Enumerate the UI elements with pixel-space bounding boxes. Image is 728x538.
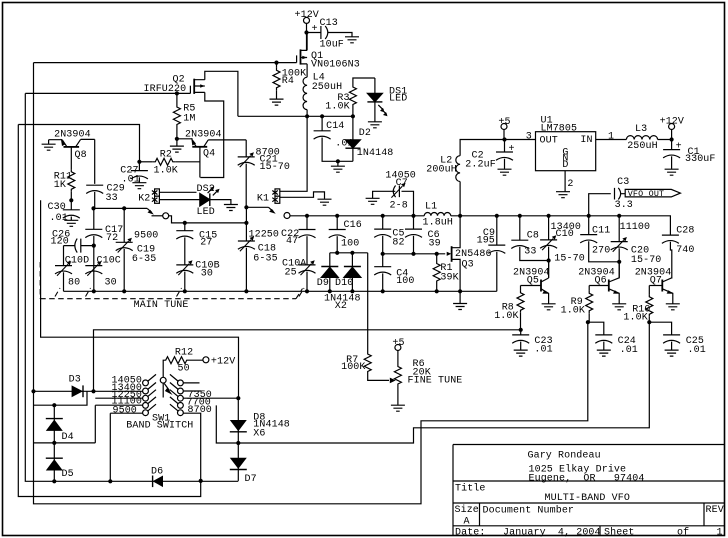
labels R11 1K: [54, 171, 72, 191]
connector VFO OUT: [625, 189, 680, 197]
svg-text:C7: C7: [396, 178, 408, 189]
ground DS2: [224, 205, 238, 211]
svg-text:D7: D7: [245, 474, 257, 485]
labels C16 100: [341, 220, 362, 249]
svg-text:11100: 11100: [620, 222, 651, 233]
led DS1: [367, 78, 387, 122]
labels L1 1.8uH: [423, 201, 454, 228]
terminal +12V top: [304, 17, 310, 23]
diode D4: [46, 419, 63, 431]
svg-text:1K: 1K: [54, 180, 66, 191]
labels band rows left: [112, 375, 143, 416]
wire C17 to rail: [93, 246, 95, 292]
wire: right row2 stub: [183, 390, 201, 392]
svg-text:LED: LED: [197, 207, 215, 218]
switch K2 socket: [163, 213, 169, 219]
diode D2: [345, 116, 360, 161]
switch K2 plug arrow: [147, 208, 154, 214]
svg-text:30: 30: [105, 278, 117, 289]
resistor R11: [68, 169, 75, 192]
labels 2N3904 Q6: [578, 268, 615, 287]
junction R5 top: [175, 91, 179, 95]
led DS2: [200, 187, 231, 207]
svg-text:K2: K2: [138, 194, 150, 205]
svg-text:R2: R2: [160, 149, 172, 160]
svg-text:1.0K: 1.0K: [623, 313, 647, 324]
labels C27 .01: [120, 165, 140, 185]
junction 8700 row / D7 row: [199, 479, 203, 483]
wire: 12250 row: [95, 397, 142, 399]
svg-text:1.0K: 1.0K: [494, 311, 518, 322]
capacitor C16: [336, 216, 338, 230]
title block text: date row: [455, 527, 723, 538]
labels 2N3904 Q5: [513, 268, 550, 287]
capacitor C14: [321, 116, 323, 131]
svg-text:LED: LED: [389, 93, 407, 104]
svg-text:C28: C28: [676, 226, 694, 237]
label MAIN TUNE: [132, 300, 192, 311]
svg-text:D5: D5: [62, 469, 74, 480]
junction C1: [670, 137, 674, 141]
svg-text:2.2uF: 2.2uF: [465, 160, 496, 171]
svg-text:740: 740: [676, 245, 694, 256]
svg-text:2N3904: 2N3904: [54, 129, 91, 140]
JFET gate wire: [382, 253, 446, 255]
transistor Q4 2N3904: [177, 138, 246, 178]
labels C17 72: [105, 225, 123, 244]
svg-text:C30: C30: [48, 202, 66, 213]
title block text: size/doc: [455, 504, 724, 528]
svg-text:3.3: 3.3: [615, 200, 633, 211]
svg-text:.01: .01: [50, 213, 68, 224]
main tank rail low: [64, 290, 497, 292]
resistor R10: [648, 286, 650, 295]
labels C11 270: [592, 226, 610, 257]
svg-text:C10: C10: [556, 229, 574, 240]
ground Q5: [542, 304, 556, 310]
labels L4 250uH: [312, 73, 343, 93]
svg-text:D2: D2: [359, 128, 371, 139]
svg-text:100: 100: [341, 238, 359, 249]
ground C30: [64, 220, 78, 226]
capacitor C27: [138, 162, 140, 171]
svg-text:1: 1: [717, 528, 723, 538]
svg-text:VFO OUT: VFO OUT: [628, 189, 665, 199]
junction D4 top: [52, 403, 56, 407]
labels DS1 LED: [389, 87, 407, 105]
svg-text:+12V: +12V: [295, 10, 319, 21]
ground DS1: [368, 122, 382, 128]
svg-text:+: +: [676, 142, 682, 153]
svg-text:Size: Size: [455, 504, 479, 516]
title block box: [453, 445, 725, 536]
svg-text:Gary Rondeau: Gary Rondeau: [528, 450, 601, 462]
capacitor C28: [662, 235, 679, 243]
labels C14 .01: [326, 121, 354, 150]
terminal +12V at R12: [203, 357, 209, 363]
svg-text:+: +: [312, 24, 318, 35]
junction R2/C27: [137, 160, 141, 164]
junction 9500 row at D6 row: [108, 479, 112, 483]
ground Q4 emitter node: [176, 139, 178, 146]
wire: R10 feedback line to D8 row: [216, 322, 649, 443]
jumper K1: [272, 116, 324, 203]
capacitor C30: [70, 200, 72, 210]
svg-text:Date:: Date:: [455, 528, 486, 538]
diode D5: [46, 458, 63, 470]
svg-text:L1: L1: [425, 201, 437, 212]
svg-text:250uH: 250uH: [312, 82, 343, 93]
junction rail dots left: [92, 289, 249, 293]
resistor R3: [352, 107, 354, 116]
transistor Q6 2N3904: [589, 262, 619, 304]
capacitor C4: [382, 254, 384, 267]
labels 2N5486 Q3: [455, 249, 492, 270]
capacitor C10C variable: [85, 266, 102, 274]
labels C8 33: [524, 231, 539, 258]
svg-text:D9: D9: [317, 278, 329, 289]
svg-text:270: 270: [592, 246, 610, 257]
inductor L3: [626, 136, 671, 140]
diode D8: [230, 420, 247, 432]
mosfet Q2 IRFU220: [190, 79, 204, 94]
svg-text:12250: 12250: [249, 230, 280, 241]
resistor R12: [163, 357, 203, 378]
capacitor C19 variable: [123, 208, 125, 242]
capacitor C10D variable: [63, 246, 65, 266]
wire socket left stub: [152, 215, 163, 217]
svg-text:Q5: Q5: [527, 275, 539, 286]
svg-text:X6: X6: [253, 429, 265, 440]
labels R6 20K FINE TUNE: [408, 359, 463, 387]
inductor L1: [424, 212, 450, 215]
svg-text:6-35: 6-35: [253, 254, 277, 265]
junction C2 tap: [502, 137, 506, 141]
labels 14050 C7 2-8: [385, 171, 416, 212]
jumper K2: [152, 189, 200, 203]
svg-text:MULTI-BAND VFO: MULTI-BAND VFO: [545, 493, 630, 504]
switch wiper to rail: [246, 206, 268, 208]
capacitor C24: [588, 322, 604, 335]
svg-text:2: 2: [567, 179, 573, 190]
svg-text:OUT: OUT: [540, 136, 558, 147]
svg-text:2-8: 2-8: [390, 200, 408, 211]
svg-text:3: 3: [526, 131, 532, 142]
svg-text:D: D: [562, 160, 568, 171]
ground R4: [270, 99, 284, 105]
wire: bus B vertical to D5 row: [25, 93, 238, 481]
svg-text:250uH: 250uH: [627, 141, 658, 152]
svg-text:FINE TUNE: FINE TUNE: [408, 376, 463, 387]
terminal +12V right: [669, 124, 675, 130]
svg-text:REV: REV: [706, 505, 724, 516]
junction R10/C25: [647, 320, 651, 324]
labels R1 39K: [440, 263, 458, 283]
junction R11/C30: [69, 198, 73, 202]
labels 11100 C20 15-70: [620, 222, 662, 266]
junction Q3 source rail: [458, 289, 462, 293]
junction D10 rail: [350, 289, 354, 293]
svg-text:9500: 9500: [134, 231, 158, 242]
svg-text:1M: 1M: [183, 114, 195, 125]
labels C25 .01: [686, 336, 706, 356]
labels L3 250uH: [627, 124, 658, 152]
junction C11/C20: [617, 260, 621, 264]
wire +12V down: [306, 23, 308, 50]
wiper arrow R6: [390, 378, 396, 384]
resistor R2: [139, 161, 152, 163]
resistor R8: [520, 286, 522, 291]
capacitor C3 coupling: [589, 188, 626, 216]
svg-text:C13: C13: [320, 18, 338, 29]
labels R7 100K: [341, 355, 365, 373]
junction D3 row at bus C: [31, 389, 35, 393]
capacitor C20 variable: [618, 216, 620, 242]
svg-text:1.0K: 1.0K: [325, 101, 349, 112]
switch SW1 right contacts: [170, 374, 183, 415]
title block text: title: [455, 483, 630, 505]
labels C3 3.3: [615, 177, 633, 211]
capacitor C9: [496, 216, 498, 245]
svg-text:1: 1: [608, 131, 614, 142]
svg-text:C16: C16: [344, 220, 362, 231]
labels 100K R4: [282, 69, 306, 87]
capacitor C26: [64, 239, 94, 253]
labels DS2 LED: [197, 184, 215, 218]
capacitor C15: [183, 221, 187, 225]
svg-text:R4: R4: [282, 76, 294, 87]
labels C4 100: [396, 268, 414, 287]
svg-text:IRFU220: IRFU220: [144, 84, 187, 95]
main tank rail top: [290, 215, 424, 217]
labels 2N3904 Q7: [635, 268, 672, 287]
junction C18 top: [244, 221, 248, 225]
svg-text:1.0K: 1.0K: [154, 165, 178, 176]
wire: Q1 gate line from bus C: [34, 62, 297, 64]
svg-text:50: 50: [178, 363, 190, 374]
wire: 7350 row long to D8: [183, 397, 238, 399]
diode D9: [321, 253, 338, 291]
wire: D4 top row: [34, 442, 96, 444]
capacitor C22: [306, 216, 308, 230]
jfet Q3 2N5486: [447, 216, 460, 291]
svg-text:15-70: 15-70: [260, 162, 291, 173]
svg-text:D3: D3: [69, 374, 81, 385]
junction D9 rail: [328, 289, 332, 293]
capacitor C25: [649, 322, 671, 335]
svg-text:R12: R12: [175, 348, 193, 359]
capacitor C6: [413, 216, 415, 229]
capacitor C13: [307, 26, 353, 39]
wire: 13400 row with D3: [34, 390, 143, 392]
svg-text:DS2: DS2: [197, 184, 215, 195]
svg-text:15-70: 15-70: [631, 255, 662, 266]
labels C6 39: [428, 230, 441, 249]
diode D6: [153, 476, 163, 488]
svg-text:33: 33: [524, 247, 536, 258]
svg-text:1.8uH: 1.8uH: [423, 217, 454, 228]
junction D8 bottom row: [236, 441, 240, 445]
wire Q8 base to R11: [70, 147, 72, 169]
wire: 11100 row left segment: [34, 391, 88, 405]
wire node down: [245, 207, 247, 223]
svg-text:+: +: [509, 144, 515, 155]
svg-text:8700: 8700: [188, 405, 212, 416]
labels D2 1N4148: [357, 128, 394, 159]
labels D9 D10 1N4148 X2: [317, 278, 361, 312]
labels C30 .01: [48, 202, 68, 224]
svg-text:27: 27: [200, 237, 212, 248]
ground Q3 source: [459, 291, 461, 303]
regulator U1 LM7805: [536, 132, 596, 171]
labels 12250 C18 6-35: [249, 230, 280, 265]
svg-text:D6: D6: [151, 466, 163, 477]
junction R5 bottom: [175, 137, 179, 141]
wire Q2 drain to supply rail: [205, 71, 238, 116]
capacitor C10A variable: [299, 265, 316, 273]
wire: 9500 row: [110, 413, 142, 481]
svg-text:Q4: Q4: [203, 148, 215, 159]
svg-text:C14: C14: [326, 121, 344, 132]
svg-text:195: 195: [477, 236, 495, 247]
svg-text:.01: .01: [620, 345, 638, 356]
labels Q2 IRFU220: [144, 75, 187, 95]
capacitor C21 variable: [245, 140, 247, 157]
ground C27: [132, 183, 146, 189]
labels C23 .01: [534, 336, 552, 356]
capacitor C1 polarized: [671, 140, 673, 150]
junction R8/C23: [519, 328, 523, 332]
labels 9500 C19 6-35: [132, 231, 159, 266]
resistor R7: [367, 253, 369, 352]
svg-text:+12V: +12V: [660, 117, 684, 128]
svg-text:L3: L3: [635, 124, 647, 135]
diode D7: [230, 458, 247, 470]
svg-text:80: 80: [68, 278, 80, 289]
inductor L2: [456, 140, 536, 216]
svg-text:C8: C8: [527, 231, 539, 242]
labels C26 120: [51, 229, 71, 247]
junction D5 bottom: [52, 479, 56, 483]
labels R2 1.0K: [154, 149, 178, 176]
mosfet Q1 VN0106N3: [297, 33, 308, 78]
labels C28 740: [676, 226, 694, 256]
wire socket to C15 row: [169, 216, 247, 223]
labels C9 195: [477, 228, 496, 247]
svg-text:47: 47: [286, 236, 298, 247]
svg-text:C11: C11: [592, 226, 610, 237]
ground C13: [345, 37, 359, 43]
capacitor C10 variable: [548, 216, 550, 240]
junction C19 top: [122, 206, 126, 210]
svg-text:82: 82: [392, 238, 404, 249]
supply rail node: [238, 115, 353, 117]
potentiometer R6: [397, 351, 399, 365]
svg-text:LM7805: LM7805: [541, 124, 578, 135]
ground Q6: [612, 304, 626, 310]
ground Q7: [666, 304, 680, 310]
junction C8/C10: [547, 258, 551, 262]
svg-text:100K: 100K: [341, 362, 365, 373]
svg-text:1N4148: 1N4148: [357, 148, 394, 159]
svg-text:33: 33: [106, 193, 118, 204]
labels C15 27: [199, 231, 217, 249]
labels C10A 25: [282, 258, 306, 278]
wire: bus C vertical left side: [34, 63, 588, 504]
transistor Q5 2N3904: [521, 261, 549, 304]
wire: bus A vertical to 8700 row: [18, 125, 200, 497]
wire R11 to node: [70, 192, 72, 201]
labels R3 1.0K: [325, 93, 349, 112]
svg-text:10uF: 10uF: [320, 40, 344, 51]
labels C2 2.2uF: [465, 150, 496, 170]
svg-text:120: 120: [51, 237, 69, 248]
svg-text:MAIN TUNE: MAIN TUNE: [134, 300, 189, 311]
junction C26: [92, 244, 96, 248]
resistor R5: [176, 93, 178, 104]
capacitor C18 variable: [245, 223, 247, 241]
capacitor C10B variable: [176, 265, 193, 273]
wire: bus A top to R2/C27 node: [18, 125, 139, 162]
varactor bias row: [330, 252, 368, 254]
svg-text:.01: .01: [122, 175, 140, 186]
labels R8 1.0K: [494, 302, 518, 322]
svg-text:C18: C18: [258, 243, 276, 254]
junction C13 tap: [304, 30, 308, 34]
transistor Q8 2N3904: [49, 139, 95, 184]
capacitor C17: [93, 208, 95, 229]
labels Q1 VN0106N3: [311, 51, 360, 71]
labels 8700 C21 15-70: [256, 148, 291, 173]
svg-text:Q8: Q8: [75, 150, 87, 161]
svg-text:C10C: C10C: [97, 256, 121, 267]
svg-text:D4: D4: [62, 432, 74, 443]
labels C29 33: [106, 184, 125, 205]
svg-text:Title: Title: [455, 483, 486, 495]
svg-text:K1: K1: [257, 193, 269, 204]
diode D10: [344, 253, 361, 291]
svg-text:1.0K: 1.0K: [561, 305, 585, 316]
svg-text:9500: 9500: [113, 405, 137, 416]
ground Q8 emitter: [42, 144, 56, 150]
svg-text:VN0106N3: VN0106N3: [311, 60, 360, 71]
diode D3: [72, 385, 83, 397]
labels R10 1.0K: [623, 304, 650, 323]
labels C13 10uF: [320, 18, 344, 51]
labels D8: [253, 413, 290, 440]
junction C10A rail: [305, 289, 309, 293]
dashed gang box MAIN TUNE: [40, 262, 304, 299]
junction C29/C17: [91, 206, 95, 210]
switch SW1 left contacts: [143, 374, 156, 415]
capacitor C7 variable: [373, 186, 414, 216]
svg-text:25: 25: [285, 267, 297, 278]
inductor L4: [303, 77, 307, 116]
capacitor C5: [382, 216, 384, 229]
wire: Q2 source line from bus B: [25, 92, 190, 94]
svg-text:of: of: [677, 527, 689, 538]
labels R9 1.0K: [561, 297, 585, 316]
svg-text:2N3904: 2N3904: [185, 129, 222, 140]
wire Q2 source to Q4 base node: [200, 92, 223, 177]
wire tune row upper: [94, 207, 148, 209]
switch SW1 wiper: [160, 377, 172, 397]
terminal +5 fine tune: [395, 345, 401, 351]
junction R4 top on gate line: [274, 61, 278, 65]
wire IN pin: [596, 139, 627, 141]
junction C14 ground: [336, 159, 340, 163]
wire: bus D from R11/C30 node: [41, 200, 239, 398]
